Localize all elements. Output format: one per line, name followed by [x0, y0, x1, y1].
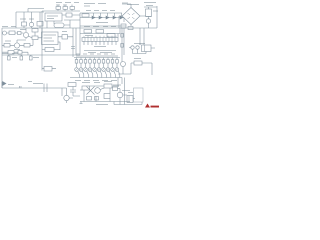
transistor Q10	[23, 32, 28, 37]
capacitor ticks on rails	[71, 47, 75, 49]
transistor Q16	[117, 92, 123, 98]
wire bottom-left supply y88	[2, 87, 62, 89]
transistor Q11	[14, 43, 19, 48]
mic label	[2, 27, 26, 30]
bridge rectifier BR1 diamond	[122, 8, 140, 25]
wire stub	[2, 82, 62, 96]
wire feed left from U1	[16, 9, 44, 29]
resistor R30 + transistor Q9b	[116, 58, 118, 60]
capacitor C110	[146, 9, 152, 17]
diode D104	[113, 16, 116, 19]
transistor Q21	[136, 46, 139, 49]
transistor Q110	[29, 22, 33, 26]
diode D101	[92, 16, 95, 19]
diode D8	[3, 82, 7, 86]
label row	[86, 11, 115, 23]
wire right rail	[156, 6, 158, 28]
resistor R11	[84, 30, 92, 34]
capacitor C16	[20, 56, 23, 60]
wire left rail	[1, 28, 3, 88]
wire array bottom bus y77.5	[70, 77, 122, 79]
wire top bus y28 full width	[2, 27, 157, 29]
wire connector area	[129, 43, 155, 54]
resistor R2b	[32, 36, 38, 40]
resistor R102	[70, 7, 75, 10]
wire array top bus y57.5	[74, 57, 120, 59]
wire bridge connections	[119, 4, 146, 28]
resistor R111	[37, 22, 43, 27]
wire bottom bus y101.5	[80, 101, 130, 103]
transistor Q15	[95, 88, 101, 94]
resistor R7	[8, 51, 14, 55]
resistor R26 + transistor Q6	[98, 58, 100, 60]
wire top row bottom line y26	[80, 13, 126, 28]
wire	[62, 87, 80, 104]
resistor R31	[134, 61, 142, 65]
IC201 long body	[82, 38, 118, 42]
resistor R27 + transistor Q7	[103, 58, 105, 60]
resistor R23 + transistor Q3	[85, 58, 87, 60]
wire bottom right	[114, 89, 142, 105]
wire top distribution line y13	[80, 12, 122, 14]
resistor R29 + transistor Q9	[112, 58, 114, 60]
resistor R2a	[32, 29, 38, 33]
right mid transistor Q13	[121, 62, 126, 67]
resistor R8	[45, 48, 54, 52]
label	[85, 35, 93, 37]
label	[2, 54, 39, 58]
resistor R45	[113, 87, 118, 91]
diode D103	[106, 16, 109, 19]
wire diode chain line y17.5	[80, 17, 124, 19]
resistor R42	[82, 86, 90, 90]
label above mid bus	[84, 26, 116, 28]
capacitor C21 on rail	[121, 44, 124, 48]
capacitor C3	[18, 51, 22, 55]
resistor R6	[24, 44, 30, 48]
label +12V	[8, 82, 43, 85]
capacitor C8 ticks	[70, 90, 76, 92]
resistor R13	[107, 34, 115, 38]
module U2 box	[42, 32, 59, 45]
transformer T1 labels	[56, 3, 79, 6]
junction box lower-left of bridge	[121, 24, 126, 28]
resistor R22 + transistor Q2	[80, 58, 82, 60]
resistor R28 + transistor Q8	[107, 58, 109, 60]
resistor R1	[9, 31, 15, 35]
resistor R101	[56, 7, 61, 10]
logo elec-circuit red	[145, 104, 159, 108]
resistor R21 + transistor Q1	[76, 58, 78, 60]
wire verticals from array	[118, 78, 125, 105]
resistor R5	[4, 44, 10, 48]
resistor R24 + transistor Q4	[89, 58, 91, 60]
label	[82, 82, 112, 83]
microphone MIC1	[3, 31, 7, 35]
resistor R46	[127, 96, 133, 103]
resistor R43	[104, 84, 112, 88]
wire bottom center	[80, 86, 119, 102]
wire bottom of left cluster	[2, 52, 80, 55]
resistor R12	[96, 30, 104, 34]
wire right power	[144, 7, 157, 28]
lower-left module leg	[41, 55, 43, 71]
junction blob on bus	[128, 27, 133, 30]
label	[134, 43, 145, 45]
label row above array	[76, 54, 118, 56]
capacitor C7	[44, 84, 47, 93]
resistor R16	[44, 67, 52, 72]
label 220V AC	[122, 3, 139, 5]
resistor R47	[87, 97, 92, 101]
label under IC	[88, 47, 112, 53]
wire mid verticals	[80, 28, 122, 55]
resistor R25 + transistor Q5	[94, 58, 96, 60]
capacitor C5	[62, 35, 68, 40]
capacitor C20 on rail	[121, 34, 124, 38]
wire module lower	[42, 28, 60, 55]
resistor R15	[30, 56, 33, 60]
resistor R41	[68, 83, 76, 87]
diode D102	[99, 16, 102, 19]
capacitor C15	[8, 56, 11, 60]
LED D110	[146, 19, 150, 23]
label	[5, 41, 20, 50]
array leg labels	[75, 80, 117, 82]
capacitor C101	[63, 7, 68, 10]
wire cross X	[87, 87, 95, 95]
wire left preamp	[2, 28, 42, 39]
label IC top	[84, 4, 106, 7]
wire stubs	[9, 55, 31, 56]
label	[113, 85, 133, 93]
wire	[47, 15, 80, 28]
resistor R48	[95, 97, 99, 101]
output box right	[134, 88, 144, 102]
diode D105	[120, 16, 123, 19]
resistor R103	[66, 13, 72, 17]
capacitor C102	[54, 23, 64, 28]
resistor R100	[82, 14, 89, 17]
wire stubs cluster	[24, 12, 40, 28]
capacitor C1	[18, 32, 22, 35]
ground stub	[80, 102, 83, 104]
wire module	[58, 28, 76, 57]
wire lower mid line y50.5	[84, 50, 116, 52]
wire top-left feeds	[42, 5, 80, 29]
transistor pair Q20	[131, 46, 134, 49]
relay box K1	[142, 45, 152, 52]
IC201 pins	[84, 41, 116, 45]
resistor R110	[22, 22, 27, 26]
right connector verticals	[124, 28, 144, 55]
transistor Q14	[64, 95, 69, 100]
wire left lower	[2, 40, 33, 45]
wire mid bus y33	[80, 33, 120, 35]
IC timer U1 box	[45, 13, 62, 21]
resistor R44	[104, 94, 110, 99]
